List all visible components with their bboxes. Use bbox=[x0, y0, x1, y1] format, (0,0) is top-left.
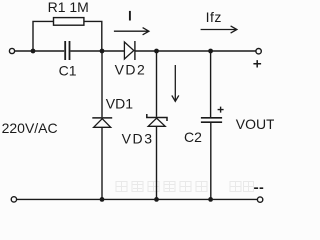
svg-text:C2: C2 bbox=[184, 129, 202, 145]
svg-text:C1: C1 bbox=[59, 63, 77, 79]
svg-text:VD1: VD1 bbox=[106, 95, 133, 111]
svg-text:R1 1M: R1 1M bbox=[48, 0, 89, 15]
svg-text:VOUT: VOUT bbox=[236, 116, 274, 132]
svg-text:VD2: VD2 bbox=[115, 62, 147, 78]
svg-text:VD3: VD3 bbox=[122, 130, 154, 146]
svg-text:220V/AC: 220V/AC bbox=[2, 120, 58, 136]
svg-text:Ifz: Ifz bbox=[206, 9, 222, 25]
